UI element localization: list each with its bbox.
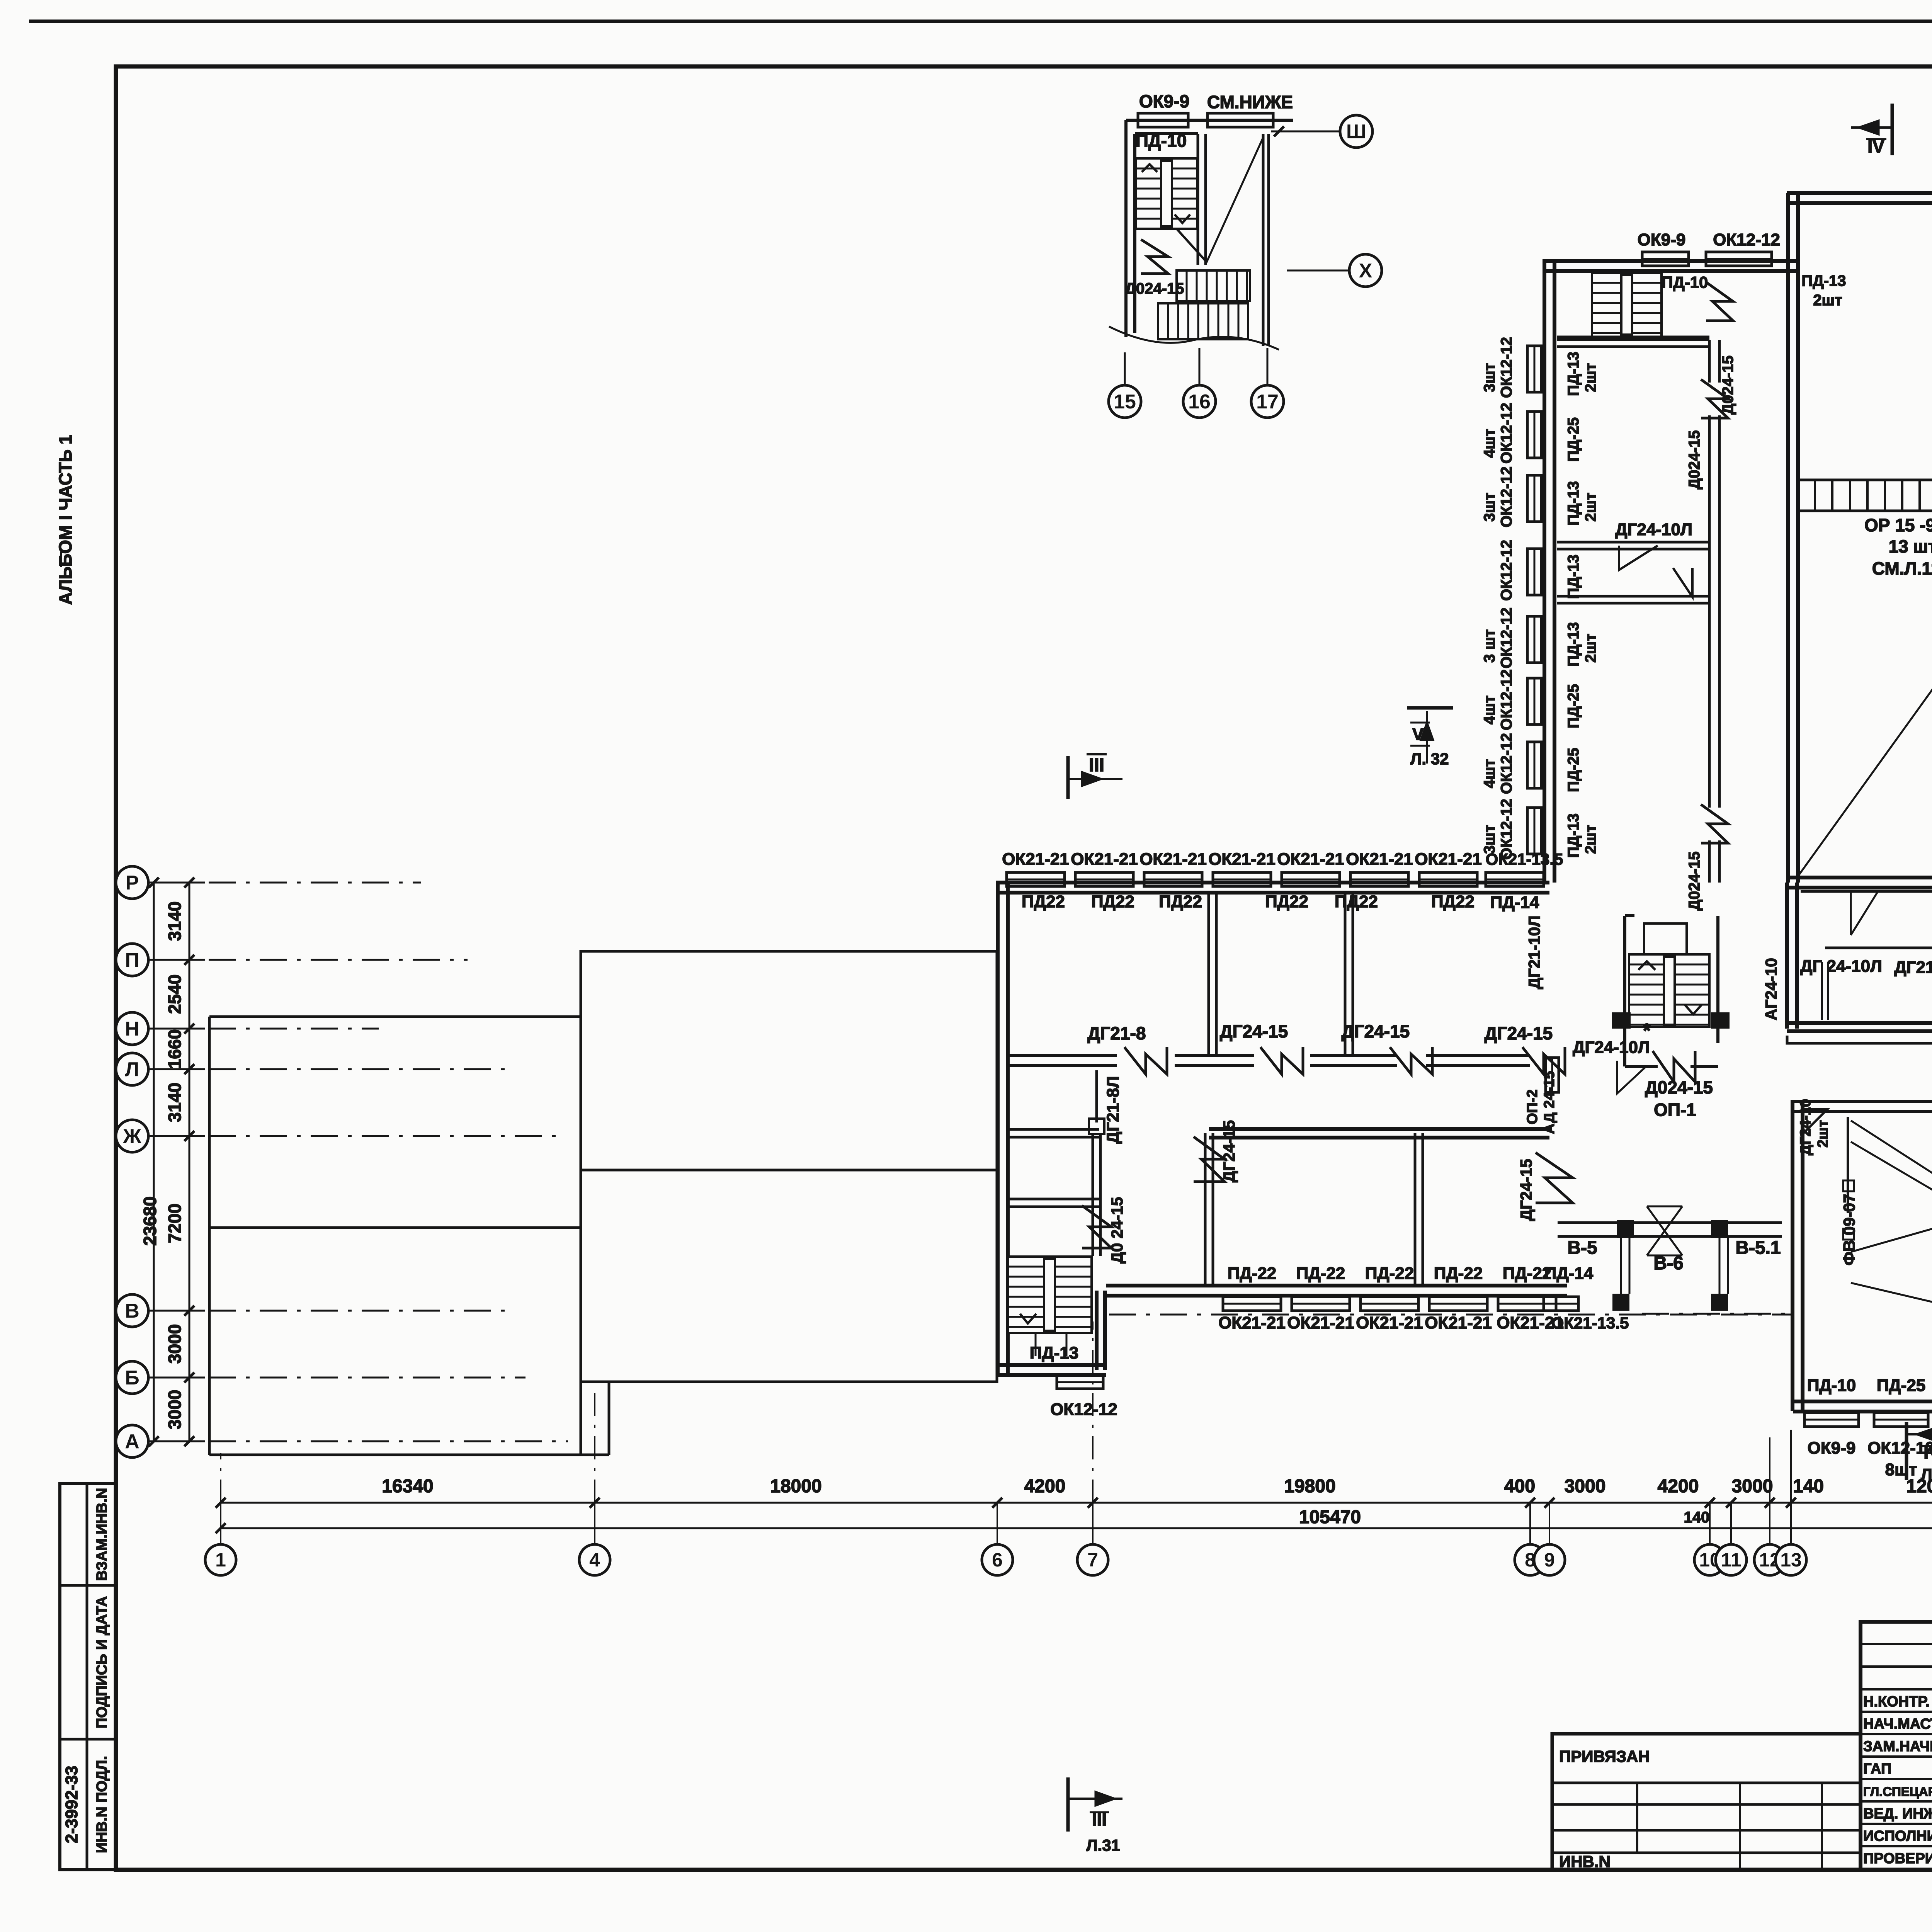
wing left wall: [1544, 259, 1554, 883]
detail fragment top wall: [1126, 119, 1293, 122]
svg-text:Д024-15: Д024-15: [1719, 355, 1736, 415]
svg-text:1: 1: [215, 1549, 226, 1571]
svg-text:3140: 3140: [165, 1083, 185, 1122]
axis bubble X detail: [1287, 270, 1349, 272]
detail right wall: [1263, 134, 1269, 346]
axis bubble Sh detail: [1271, 131, 1339, 133]
svg-text:В-5: В-5: [1567, 1238, 1597, 1258]
section mark III middle: [1066, 756, 1070, 799]
svg-text:ОК12-12: ОК12-12: [1498, 733, 1515, 794]
svg-text:ГЛ.СПЕЦАРХ: ГЛ.СПЕЦАРХ: [1863, 1784, 1932, 1799]
detail lower stair flight B: [1158, 303, 1248, 339]
svg-text:ДГ21-8: ДГ21-8: [1088, 1023, 1146, 1043]
hall X sight lines: [1851, 1121, 1932, 1376]
wc block left wall: [1787, 883, 1797, 1029]
svg-text:А: А: [125, 1430, 139, 1453]
svg-text:7200: 7200: [165, 1204, 185, 1243]
bottom hall top wall: [1793, 1102, 1932, 1112]
left attach table: [1552, 1734, 1861, 1870]
svg-text:140: 140: [1684, 1509, 1710, 1526]
svg-text:ОР 15 -9 А: ОР 15 -9 А: [1864, 515, 1932, 535]
svg-text:2шт: 2шт: [1815, 1120, 1831, 1148]
svg-text:Д024-15: Д024-15: [1645, 1077, 1713, 1097]
svg-text:ДГ24-15: ДГ24-15: [1220, 1021, 1288, 1041]
left axis dash-dot lines: [209, 882, 421, 884]
detail door D024-15: [1141, 240, 1168, 274]
classroom stair block bottom wall: [996, 1365, 1106, 1375]
svg-text:ПД-14: ПД-14: [1490, 893, 1539, 912]
svg-text:ДГ24-15: ДГ24-15: [1485, 1023, 1553, 1043]
svg-text:18000: 18000: [770, 1476, 821, 1497]
detail break line: [1109, 327, 1279, 350]
middle hall colonnade band: [1798, 480, 1932, 511]
svg-text:ПД-13: ПД-13: [1030, 1344, 1079, 1362]
central door D024-15 OP-1: [1653, 1051, 1695, 1082]
svg-text:ДГ24-15: ДГ24-15: [1220, 1120, 1238, 1182]
lower rooms partition v2: [1415, 1133, 1423, 1287]
door zig DG24-15 c: [1522, 1047, 1565, 1074]
classroom stair block right wall: [1097, 1291, 1105, 1370]
svg-text:ПД-25: ПД-25: [1565, 748, 1582, 792]
svg-text:9: 9: [1544, 1549, 1555, 1571]
svg-text:ПД-22: ПД-22: [1228, 1264, 1277, 1283]
axis B dashed mid: [1642, 1313, 1793, 1315]
section mark IV top: [1891, 104, 1894, 155]
svg-text:3000: 3000: [165, 1390, 185, 1429]
svg-text:ОК21-21: ОК21-21: [1139, 850, 1207, 869]
svg-text:В-6: В-6: [1653, 1253, 1683, 1274]
svg-text:ПД-13: ПД-13: [1801, 272, 1846, 289]
wing partition b: [1557, 542, 1709, 549]
portico beam row B: [1558, 1223, 1782, 1236]
svg-text:ПД22: ПД22: [1335, 892, 1378, 911]
svg-text:23680: 23680: [140, 1196, 160, 1246]
svg-text:ПД22: ПД22: [1431, 892, 1475, 911]
svg-text:ОП-2: ОП-2: [1524, 1089, 1541, 1124]
wc bottom porch left: [1787, 1036, 1932, 1043]
svg-text:ПД-10: ПД-10: [1807, 1376, 1856, 1395]
svg-text:ПД22: ПД22: [1265, 892, 1308, 911]
svg-text:3000: 3000: [1565, 1476, 1606, 1497]
svg-text:3шт: 3шт: [1481, 493, 1498, 522]
svg-text:ПД-22: ПД-22: [1365, 1264, 1414, 1283]
svg-text:1660: 1660: [165, 1029, 185, 1069]
svg-text:ОК9-9: ОК9-9: [1139, 91, 1189, 111]
classroom partition v2: [1345, 893, 1353, 1056]
svg-text:ОП-1: ОП-1: [1654, 1100, 1696, 1120]
middle hall top wall: [1787, 193, 1932, 203]
svg-text:ПД-13: ПД-13: [1565, 813, 1582, 858]
svg-text:Ж: Ж: [123, 1125, 142, 1148]
wing door DG24-10L: [1619, 546, 1658, 570]
door zig D024-15 left small room: [1082, 1206, 1111, 1248]
wc block inner top wall: [1801, 890, 1932, 893]
lower rooms partition v1: [1205, 1133, 1213, 1287]
central stair hatch: [1629, 954, 1709, 1027]
classroom block bottom wall: [1106, 1286, 1567, 1296]
svg-text:Д0 24-15: Д0 24-15: [1108, 1197, 1126, 1264]
bottom grid ticks: [216, 1498, 226, 1508]
classroom corridor wall upper: [1008, 1056, 1530, 1066]
svg-text:ПД-25: ПД-25: [1877, 1376, 1926, 1395]
svg-text:ОК21-21: ОК21-21: [1425, 1313, 1492, 1332]
classroom stair landing lines: [1035, 1333, 1037, 1356]
classroom block top wall: [996, 883, 1549, 893]
left block step bottom: [581, 1382, 609, 1455]
left axis bubbles: [148, 882, 205, 884]
svg-text:Х: Х: [1359, 260, 1372, 282]
classroom partition v1: [1209, 893, 1216, 1056]
svg-text:ИСПОЛНИЛ: ИСПОЛНИЛ: [1863, 1828, 1932, 1844]
svg-text:2540: 2540: [165, 975, 185, 1014]
svg-text:ПД-14: ПД-14: [1544, 1264, 1594, 1283]
wing inner door b: [1673, 568, 1692, 597]
svg-text:13: 13: [1780, 1549, 1802, 1571]
bottom hall bottom wall: [1793, 1401, 1932, 1412]
door stub DG21-8L: [1095, 1070, 1098, 1122]
svg-text:ДГ21-8Л: ДГ21-8Л: [1104, 1076, 1122, 1144]
svg-text:Л.31: Л.31: [1921, 1465, 1932, 1483]
svg-text:ПД-10: ПД-10: [1136, 131, 1187, 151]
svg-text:11: 11: [1721, 1549, 1742, 1571]
svg-text:ОК21-21: ОК21-21: [1346, 850, 1413, 869]
left small rooms wall vertical: [1093, 1133, 1100, 1256]
axis bubble 15 detail: [1124, 352, 1126, 384]
svg-text:ПД22: ПД22: [1159, 892, 1202, 911]
sheet top edge line: [29, 20, 1932, 23]
door zig DG24-15 a: [1260, 1047, 1303, 1074]
svg-text:ОК21-21: ОК21-21: [1002, 850, 1069, 869]
left vertical dim line: [189, 883, 190, 1441]
svg-text:2-3992-33: 2-3992-33: [62, 1766, 81, 1844]
middle hall diagonal: [1799, 514, 1932, 875]
door AG24-15 big zig: [1536, 1153, 1573, 1203]
wing top windows: [1642, 252, 1689, 266]
bottom grid bubbles: [205, 1544, 236, 1575]
section mark IV bottom: [1905, 1422, 1908, 1480]
svg-text:ПД-13: ПД-13: [1565, 622, 1582, 667]
svg-text:ОК12-12: ОК12-12: [1498, 540, 1515, 601]
wc block bottom wall: [1787, 1023, 1932, 1031]
svg-text:Б: Б: [125, 1367, 139, 1389]
svg-text:ПД-13: ПД-13: [1565, 481, 1582, 526]
svg-text:3шт: 3шт: [1481, 363, 1498, 392]
svg-text:ОК12-12: ОК12-12: [1498, 669, 1515, 730]
detail window OK9-9: [1138, 113, 1188, 127]
wc partition v1: [1822, 962, 1828, 1020]
svg-text:16: 16: [1188, 391, 1211, 413]
hall small squares: [1843, 1180, 1854, 1191]
svg-text:Ш: Ш: [1346, 121, 1366, 143]
window on classroom right wall: [1546, 1058, 1559, 1092]
svg-text:Л.31: Л.31: [1086, 1836, 1120, 1854]
bottom hall windows row: [1804, 1413, 1859, 1427]
svg-text:ЗАМ.НАЧМ.: ЗАМ.НАЧМ.: [1863, 1738, 1932, 1755]
svg-text:ДГ 24-10Л: ДГ 24-10Л: [1800, 957, 1882, 976]
svg-text:ДГ24-10: ДГ24-10: [1798, 1099, 1814, 1155]
svg-text:ПРИВЯЗАН: ПРИВЯЗАН: [1559, 1747, 1650, 1765]
bottom wall windows: [1223, 1297, 1281, 1311]
svg-text:7: 7: [1087, 1549, 1098, 1571]
svg-text:ДГ24-15: ДГ24-15: [1517, 1159, 1535, 1221]
svg-text:2шт: 2шт: [1582, 363, 1599, 392]
svg-text:3140: 3140: [165, 901, 185, 941]
wing left wall windows and labels: [1527, 346, 1541, 392]
detail inner wall: [1198, 134, 1206, 265]
wc door swings: [1851, 891, 1878, 935]
svg-text:16340: 16340: [382, 1476, 433, 1497]
names table rows: [1861, 1643, 1932, 1645]
svg-text:СМ.Л.111: СМ.Л.111: [1872, 558, 1932, 578]
wing right wall: [1788, 193, 1798, 883]
svg-text:ОК12-12: ОК12-12: [1498, 799, 1515, 860]
section mark VI middle: [1407, 706, 1453, 710]
wing stair walls: [1660, 273, 1663, 337]
axis B dashed line: [1109, 1314, 1793, 1316]
svg-text:ОК12-12: ОК12-12: [1498, 337, 1515, 398]
section mark III bottom: [1066, 1777, 1070, 1832]
svg-text:ПД-10: ПД-10: [1662, 273, 1708, 291]
svg-text:3 шт: 3 шт: [1481, 629, 1498, 663]
classroom block left wall: [998, 883, 1008, 1375]
svg-text:ОК12-12: ОК12-12: [1498, 403, 1515, 464]
title block outer: [1861, 1622, 1932, 1870]
detail fragment left wall: [1124, 120, 1128, 337]
svg-text:19800: 19800: [1284, 1476, 1335, 1497]
svg-text:ПД-13: ПД-13: [1565, 554, 1582, 599]
svg-text:АД 24-15: АД 24-15: [1541, 1071, 1558, 1134]
central stair columns: [1612, 1012, 1631, 1029]
svg-text:ОК21-13.5: ОК21-13.5: [1551, 1314, 1629, 1332]
svg-text:АГ24-10: АГ24-10: [1762, 958, 1780, 1020]
central stair walls: [1625, 916, 1718, 1066]
detail lower stair flight A: [1177, 270, 1250, 301]
svg-text:ОК21-21: ОК21-21: [1415, 850, 1482, 869]
svg-text:3000: 3000: [165, 1324, 185, 1364]
svg-text:ГАП: ГАП: [1863, 1761, 1891, 1777]
portico lower columns: [1612, 1294, 1629, 1311]
svg-text:2шт: 2шт: [1582, 493, 1599, 522]
wing top wall: [1543, 261, 1797, 271]
svg-text:ПД-25: ПД-25: [1565, 417, 1582, 462]
svg-text:400: 400: [1504, 1476, 1535, 1497]
svg-text:13 шт: 13 шт: [1889, 536, 1932, 556]
svg-text:ПД22: ПД22: [1091, 892, 1134, 911]
svg-text:ФВ 09-07: ФВ 09-07: [1840, 1194, 1858, 1265]
door zig DG24-15 lower corridor: [1194, 1137, 1225, 1182]
svg-text:III: III: [1089, 755, 1104, 776]
stair window: [1057, 1376, 1103, 1389]
svg-text:105470: 105470: [1299, 1507, 1361, 1527]
svg-text:В: В: [125, 1300, 139, 1322]
svg-text:4200: 4200: [1024, 1476, 1066, 1497]
lower rooms top wall: [1209, 1129, 1549, 1138]
wc partition mid: [1825, 947, 1932, 949]
portico columns row B: [1617, 1220, 1634, 1238]
svg-text:ПД22: ПД22: [1022, 892, 1065, 911]
svg-text:П: П: [125, 949, 139, 971]
left small rooms wall b: [1008, 1199, 1099, 1207]
axis bubble 17 detail: [1267, 348, 1269, 384]
middle hall bottom wall: [1787, 878, 1932, 888]
svg-text:2шт: 2шт: [1582, 825, 1599, 854]
svg-text:3000: 3000: [1732, 1476, 1773, 1497]
svg-text:Л. 32: Л. 32: [1410, 750, 1449, 768]
svg-text:ДГ24-10Л: ДГ24-10Л: [1615, 520, 1692, 539]
svg-text:ОК21-21: ОК21-21: [1208, 850, 1276, 869]
axis bubble 16 detail: [1199, 348, 1201, 384]
hall stage stub: [1847, 1117, 1849, 1213]
svg-text:4200: 4200: [1658, 1476, 1699, 1497]
ventilation X symbol: [1647, 1206, 1682, 1255]
svg-text:ОК12-12: ОК12-12: [1867, 1439, 1932, 1458]
svg-text:ПД-22: ПД-22: [1296, 1264, 1345, 1283]
wing partition c: [1557, 596, 1709, 603]
svg-text:ПРОВЕРИЛ: ПРОВЕРИЛ: [1863, 1850, 1932, 1867]
left annex divider: [209, 1226, 581, 1229]
svg-text:ОК21-21: ОК21-21: [1277, 850, 1344, 869]
svg-text:4шт: 4шт: [1481, 429, 1498, 458]
detail stair upper flight: [1136, 158, 1197, 229]
top wall windows: [1007, 872, 1065, 886]
bottom dim line 1: [221, 1502, 1932, 1504]
svg-text:6: 6: [992, 1549, 1003, 1571]
svg-text:15: 15: [1114, 391, 1136, 413]
portico lower beams: [1621, 1236, 1728, 1294]
left overall dim 23680: [153, 883, 155, 1441]
bottom dim line 2: [221, 1527, 1932, 1529]
svg-text:ОК21-21: ОК21-21: [1287, 1313, 1354, 1332]
svg-text:АЛЬБОМ I ЧАСТЬ 1: АЛЬБОМ I ЧАСТЬ 1: [55, 435, 75, 605]
wing door D024-15 top: [1706, 282, 1733, 321]
door zig DG24-15 b: [1390, 1047, 1432, 1074]
svg-text:В-5.1: В-5.1: [1735, 1238, 1781, 1258]
wing door D024-15 low: [1701, 804, 1728, 843]
svg-text:ПД-13: ПД-13: [1565, 352, 1582, 396]
svg-text:ОК21-21: ОК21-21: [1356, 1313, 1423, 1332]
bottom grid leaders up: [220, 1453, 221, 1503]
left small rooms wall a: [1008, 1129, 1099, 1137]
svg-text:*: *: [1643, 1020, 1651, 1042]
left big block outline: [581, 951, 997, 1382]
svg-text:ПОДПИСЬ И ДАТА: ПОДПИСЬ И ДАТА: [94, 1596, 110, 1728]
svg-text:ИНВ.N: ИНВ.N: [1559, 1852, 1611, 1871]
svg-text:ОК12-12: ОК12-12: [1498, 466, 1515, 527]
left big block divider: [581, 1169, 997, 1172]
classroom stair: [1008, 1257, 1092, 1333]
door zig DG21-8: [1124, 1047, 1167, 1074]
svg-text:ОК12-12: ОК12-12: [1050, 1400, 1117, 1419]
svg-text:4шт: 4шт: [1481, 696, 1498, 724]
svg-text:17: 17: [1256, 391, 1279, 413]
svg-text:ДГ21-8Л: ДГ21-8Л: [1894, 958, 1932, 977]
svg-text:Н.КОНТР.: Н.КОНТР.: [1863, 1694, 1930, 1710]
svg-text:ОК21-21: ОК21-21: [1218, 1313, 1286, 1332]
svg-text:ОК9-9: ОК9-9: [1638, 230, 1686, 249]
central stair upper rect: [1644, 923, 1687, 954]
svg-text:4шт: 4шт: [1481, 759, 1498, 788]
svg-text:ДГ24-10Л: ДГ24-10Л: [1573, 1038, 1650, 1057]
svg-text:НАЧ.МАСТ.: НАЧ.МАСТ.: [1863, 1716, 1932, 1732]
inventory stamp strip: [60, 1483, 116, 1870]
svg-text:VI: VI: [1412, 725, 1429, 744]
svg-text:4: 4: [589, 1549, 600, 1571]
wing door D024-15 mid: [1701, 379, 1728, 418]
left annex outline: [209, 1017, 609, 1455]
svg-text:ОК21-21: ОК21-21: [1071, 850, 1138, 869]
bottom hall left wall: [1793, 1100, 1803, 1411]
svg-text:ПД-25: ПД-25: [1565, 684, 1582, 728]
svg-text:ОК12-12: ОК12-12: [1713, 230, 1780, 249]
svg-text:Л: Л: [125, 1058, 139, 1081]
wing stair top: [1592, 273, 1662, 337]
svg-text:2шт: 2шт: [1813, 292, 1842, 309]
svg-text:Д024-15: Д024-15: [1686, 430, 1703, 489]
detail diagonal: [1206, 138, 1263, 263]
svg-text:ОК9-9: ОК9-9: [1808, 1439, 1856, 1458]
svg-text:ВЗАМ.ИНВ.N: ВЗАМ.ИНВ.N: [94, 1488, 110, 1581]
svg-text:ВЕД. ИНЖ.: ВЕД. ИНЖ.: [1863, 1806, 1932, 1822]
svg-text:СМ.НИЖЕ: СМ.НИЖЕ: [1207, 92, 1293, 112]
wing corridor wall: [1709, 340, 1719, 883]
svg-text:Н: Н: [125, 1018, 139, 1040]
wing partition a: [1557, 340, 1709, 347]
svg-text:ПД-22: ПД-22: [1434, 1264, 1483, 1283]
svg-text:Д024-15: Д024-15: [1125, 280, 1184, 297]
svg-text:Д024-15: Д024-15: [1686, 851, 1703, 910]
svg-text:2шт: 2шт: [1582, 634, 1599, 663]
svg-text:ДГ21-10Л: ДГ21-10Л: [1525, 915, 1543, 989]
svg-text:ОК12-12: ОК12-12: [1498, 607, 1515, 668]
svg-text:3шт: 3шт: [1481, 825, 1498, 854]
svg-text:Р: Р: [126, 872, 139, 894]
svg-text:140: 140: [1793, 1476, 1824, 1497]
detail window opening: [1207, 113, 1273, 127]
svg-text:ИНВ.N ПОДЛ.: ИНВ.N ПОДЛ.: [94, 1756, 110, 1853]
